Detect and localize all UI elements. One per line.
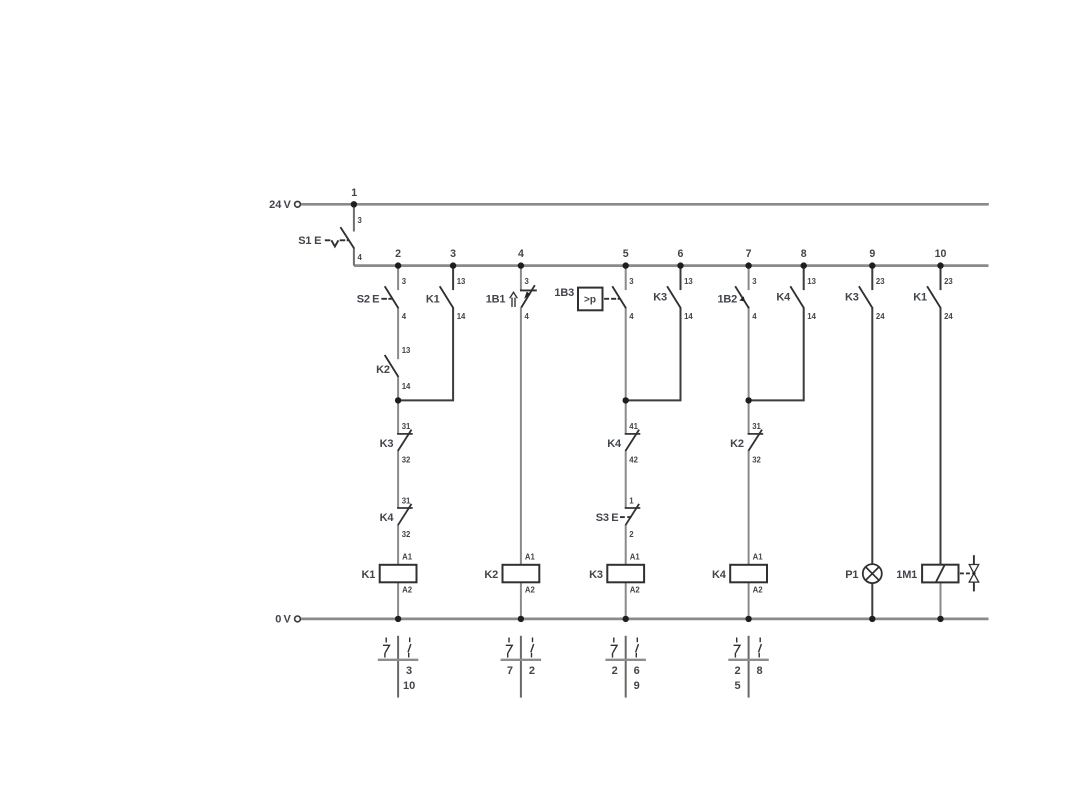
svg-text:3: 3: [525, 277, 530, 286]
svg-text:A1: A1: [630, 552, 641, 561]
svg-text:24 V: 24 V: [269, 199, 291, 211]
svg-text:A2: A2: [753, 585, 764, 594]
svg-text:4: 4: [525, 312, 530, 321]
svg-text:K4: K4: [380, 512, 395, 524]
svg-text:1M1: 1M1: [896, 569, 917, 581]
svg-text:>p: >p: [584, 294, 596, 305]
svg-text:2: 2: [629, 530, 634, 539]
svg-text:14: 14: [457, 312, 466, 321]
svg-text:23: 23: [944, 277, 953, 286]
svg-text:3: 3: [629, 277, 634, 286]
svg-text:24: 24: [944, 312, 953, 321]
svg-text:K4: K4: [776, 291, 791, 303]
svg-text:K2: K2: [484, 569, 498, 581]
svg-text:24: 24: [876, 312, 885, 321]
svg-text:1: 1: [351, 187, 357, 199]
svg-text:7: 7: [507, 665, 513, 677]
svg-text:1B3: 1B3: [554, 287, 574, 299]
svg-text:K4: K4: [712, 569, 727, 581]
svg-text:32: 32: [402, 456, 411, 465]
svg-text:2: 2: [395, 248, 401, 260]
svg-text:K1: K1: [913, 291, 927, 303]
svg-text:3: 3: [450, 248, 456, 260]
svg-text:4: 4: [358, 253, 363, 262]
svg-text:31: 31: [402, 496, 411, 505]
svg-text:3: 3: [402, 277, 407, 286]
svg-text:31: 31: [402, 422, 411, 431]
svg-text:4: 4: [518, 248, 524, 260]
svg-text:23: 23: [876, 277, 885, 286]
svg-text:5: 5: [623, 248, 629, 260]
svg-text:13: 13: [684, 277, 693, 286]
svg-text:2: 2: [529, 665, 535, 677]
svg-text:1: 1: [629, 496, 634, 505]
svg-text:E: E: [372, 294, 379, 306]
svg-text:1B1: 1B1: [486, 294, 506, 306]
svg-text:3: 3: [752, 277, 757, 286]
svg-text:K3: K3: [589, 569, 603, 581]
svg-text:S2: S2: [357, 293, 370, 305]
svg-text:P1: P1: [845, 569, 858, 581]
svg-text:4: 4: [752, 312, 757, 321]
svg-text:S1: S1: [298, 235, 311, 247]
svg-text:13: 13: [807, 277, 816, 286]
svg-text:42: 42: [629, 456, 638, 465]
svg-text:3: 3: [406, 665, 412, 677]
svg-text:A1: A1: [402, 552, 413, 561]
svg-text:K3: K3: [380, 438, 394, 450]
svg-text:A2: A2: [402, 585, 413, 594]
svg-text:A1: A1: [525, 552, 536, 561]
svg-text:K1: K1: [362, 569, 376, 581]
svg-text:6: 6: [634, 665, 640, 677]
svg-text:K3: K3: [845, 291, 859, 303]
svg-text:14: 14: [684, 312, 693, 321]
svg-text:2: 2: [735, 665, 741, 677]
svg-text:9: 9: [869, 248, 875, 260]
svg-text:2: 2: [612, 665, 618, 677]
svg-text:6: 6: [678, 248, 684, 260]
svg-text:E: E: [611, 512, 618, 524]
svg-text:E: E: [314, 235, 321, 247]
svg-text:41: 41: [629, 422, 638, 431]
svg-text:10: 10: [403, 680, 415, 692]
svg-text:A1: A1: [753, 552, 764, 561]
svg-text:32: 32: [752, 456, 761, 465]
svg-text:A2: A2: [630, 585, 641, 594]
svg-text:32: 32: [402, 530, 411, 539]
svg-text:10: 10: [935, 248, 947, 260]
svg-text:0 V: 0 V: [275, 614, 291, 626]
svg-text:13: 13: [402, 346, 411, 355]
svg-text:7: 7: [746, 248, 752, 260]
svg-text:8: 8: [801, 248, 807, 260]
svg-text:3: 3: [358, 216, 363, 225]
svg-text:K2: K2: [730, 438, 744, 450]
svg-text:14: 14: [807, 312, 816, 321]
svg-text:K1: K1: [426, 293, 440, 305]
svg-text:9: 9: [634, 680, 640, 692]
svg-text:13: 13: [457, 277, 466, 286]
svg-text:8: 8: [757, 665, 763, 677]
svg-text:14: 14: [402, 382, 411, 391]
svg-text:K4: K4: [607, 438, 622, 450]
svg-text:5: 5: [735, 680, 741, 692]
svg-text:1B2: 1B2: [718, 294, 738, 306]
svg-text:K3: K3: [653, 291, 667, 303]
svg-text:4: 4: [629, 312, 634, 321]
svg-text:A2: A2: [525, 585, 536, 594]
svg-text:S3: S3: [596, 512, 609, 524]
svg-text:31: 31: [752, 422, 761, 431]
svg-text:4: 4: [402, 312, 407, 321]
svg-text:K2: K2: [376, 364, 390, 376]
